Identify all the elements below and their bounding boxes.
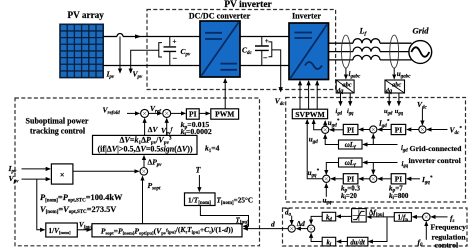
summerF3 [423, 213, 431, 221]
three-phase line c [329, 59, 354, 61]
wire d out to formula box [244, 228, 289, 230]
wire i_gd feed to omegaLf1 [363, 144, 397, 146]
wire PI1 to summer1 [330, 129, 343, 131]
svg-text:Inverter: Inverter [292, 12, 321, 21]
svg-text:Suboptimal power: Suboptimal power [26, 117, 89, 126]
inductor L_f phase a [353, 39, 380, 44]
wire multiplier to summer P [73, 170, 139, 172]
wire k_d out down to summerF2 [311, 216, 322, 223]
wire du/dt to k_i [337, 241, 347, 243]
svg-text:Grid: Grid [412, 26, 429, 36]
I_pv measurement drop [119, 37, 121, 73]
svg-text:tracking control: tracking control [30, 127, 86, 136]
svg-text:PI: PI [395, 175, 402, 184]
wire ugabc down [393, 68, 395, 79]
wire PI4 to summer5 [378, 178, 391, 180]
multiplier box [51, 164, 73, 184]
branch i_gd up to summer2 [372, 134, 374, 144]
SVPWM to inverter arrows [299, 81, 301, 109]
wire V_refold to sumA [127, 112, 139, 114]
svg-text:+: + [173, 38, 177, 46]
PI1 box [343, 124, 358, 134]
1/Tnom box [185, 193, 216, 206]
wire 1/Vnom to formula box [77, 229, 90, 231]
bracket at C_pv [159, 43, 162, 57]
svg-text:du/dt: du/dt [350, 239, 365, 246]
wire I_gq* to PI4 [407, 178, 420, 180]
PWM box [211, 109, 239, 119]
summer P (dP_pv) [140, 168, 148, 176]
wire d_a down into summerF1 [291, 216, 293, 225]
V_dc measurement drop [272, 50, 281, 92]
wire Vpv up to sumB [166, 119, 168, 136]
wire V_pv branch down to 1/Vnom [37, 179, 45, 230]
P_sopt formula box [92, 224, 242, 237]
summer3 [419, 126, 426, 133]
wire PI2 to summer2 [378, 129, 391, 131]
branch down to du/dt [369, 217, 387, 242]
wire f_s to summerF3 [431, 216, 447, 218]
wire sumA to sumB [149, 112, 162, 114]
inverter block [289, 23, 329, 80]
V_pv measurement drop [131, 50, 159, 73]
SVPWM box [292, 109, 327, 119]
summer B [163, 109, 171, 117]
summer5 [370, 175, 377, 182]
svg-text:×: × [60, 170, 65, 179]
svg-text:+: + [265, 37, 269, 45]
wire summerF3 to 1/fn [413, 216, 423, 218]
svg-text:d: d [271, 220, 275, 229]
svg-text:Frequency: Frequency [431, 222, 466, 231]
bracket at C_dc [269, 42, 272, 57]
wire: DC link top rail [240, 36, 289, 38]
DC/DC converter block [200, 21, 240, 77]
svg-text:ki=20: ki=20 [341, 192, 357, 201]
wire V_pv to multiplier [22, 178, 51, 180]
summer4 [323, 175, 330, 182]
summer1 [322, 126, 329, 133]
sensor ellipse 1 [342, 35, 351, 68]
inductor L_f phase c [353, 55, 380, 60]
dashed box: PV inverter [147, 10, 336, 90]
wire dPpv up into formula box [143, 156, 145, 167]
u_gq bottom stub into summer4 [325, 184, 327, 197]
wire dV up to sumA [144, 119, 146, 136]
three-phase line a [329, 42, 354, 44]
svg-text:Grid-connected: Grid-connected [410, 144, 463, 153]
PV array panel [60, 24, 103, 77]
k_i box [322, 237, 336, 247]
wire PI to PWM [199, 112, 209, 114]
wire summerF2 to summerF1 [297, 228, 308, 230]
wire omegaLf2 out to summer4 top [326, 163, 338, 175]
wire T_pu path into formula box [200, 206, 248, 227]
wire V_dc down to summer3 [421, 109, 423, 125]
wire V_dc* to summer3 [427, 129, 447, 131]
svg-text:PV array: PV array [68, 10, 105, 20]
wire summer2 to PI1 [359, 129, 370, 131]
summerF1 [288, 225, 295, 232]
wire omegaLf1 out to summer1 [325, 135, 338, 145]
wire 1/fn to dead zone with branch [367, 216, 394, 218]
svg-text:ki=800: ki=800 [389, 192, 409, 201]
inductor L_f phase b [353, 47, 380, 52]
svg-text:PI: PI [395, 125, 402, 134]
omega Lf box 2 [339, 158, 363, 169]
wire i_gq feed to omegaLf2 [363, 162, 397, 164]
current sensor bump [117, 34, 123, 37]
svg-text:−: − [263, 53, 268, 62]
wire igabc down [345, 68, 347, 79]
sensor ellipse 2 [390, 35, 399, 68]
summer2 [370, 126, 377, 133]
svg-text:abc: abc [342, 82, 351, 89]
dq1 outputs [340, 93, 342, 105]
dq2 outputs [388, 93, 390, 105]
svg-text:SVPWM: SVPWM [295, 110, 325, 119]
summerF2 [308, 225, 315, 232]
wire PI3 to summer4 [331, 178, 343, 180]
PI box (voltage loop) [186, 109, 199, 119]
svg-text:control: control [435, 240, 460, 249]
svg-text:PI: PI [189, 110, 197, 119]
wire P_sopt up to summer P [142, 176, 144, 223]
dashed box: Suboptimal power tracking control [15, 98, 260, 246]
svg-text:PI: PI [347, 175, 354, 184]
dead zone block [352, 209, 367, 222]
capacitor C_dc [242, 37, 269, 66]
wire f_0 up to summerF3 [425, 222, 427, 240]
svg-text:−: − [173, 54, 178, 63]
capacitor C_pv [164, 37, 192, 66]
PI3 box [343, 174, 358, 184]
wire T down to 1/Tnom [198, 175, 200, 191]
three-phase line b [329, 51, 354, 53]
svg-text:k1=4: k1=4 [205, 144, 220, 154]
dashed box: Frequency regulation control [283, 208, 468, 246]
branch i_gq down to summer5 [372, 163, 374, 175]
wire summer5 to PI3 [359, 178, 370, 180]
wire k_i out up to summerF2 [311, 234, 322, 242]
svg-text:Δd: Δd [297, 220, 305, 228]
wire: DC link bottom rail [240, 65, 289, 67]
PI2 box [391, 124, 406, 134]
abc/dq block 2 [385, 80, 405, 94]
wire PWM up to DC/DC [224, 79, 226, 109]
arrow on top rail [135, 34, 142, 38]
wire sumB to PI [171, 112, 186, 114]
svg-text:(if|ΔV|>0.5,ΔV=0.5sign(ΔV)): (if|ΔV|>0.5,ΔV=0.5sign(ΔV)) [97, 145, 192, 154]
svg-text:DC/DC converter: DC/DC converter [189, 12, 251, 21]
wire summer4 out to SVPWM [307, 120, 323, 179]
deltaV formula box [93, 135, 198, 154]
du/dt box [347, 237, 368, 246]
1/Vnom box [46, 223, 78, 237]
Grid source [409, 26, 432, 64]
summer A [141, 109, 149, 117]
svg-text:PI: PI [347, 125, 354, 134]
wire summer3 to PI2 [407, 129, 419, 131]
wire: PV bottom rail [103, 65, 200, 67]
summer1 top stub u_gd [324, 121, 326, 126]
wire I_pv to multiplier [22, 168, 51, 170]
svg-text:PWM: PWM [215, 110, 234, 119]
wire dead zone out to k_d [337, 215, 352, 217]
omega Lf box 1 [339, 140, 363, 151]
PI4 box [391, 174, 406, 184]
k_d box [322, 212, 336, 222]
svg-text:ΔV: ΔV [148, 125, 159, 134]
svg-text:PV inverter: PV inverter [224, 0, 272, 10]
wire: PV top rail [103, 36, 117, 38]
1/fn box [394, 213, 411, 223]
svg-text:abc: abc [392, 82, 401, 89]
svg-text:inverter control: inverter control [409, 156, 462, 165]
dashed box: Grid-connected inverter control [286, 98, 466, 203]
wire summer1 out to SVPWM [314, 120, 322, 130]
abc/dq block 1 [336, 80, 354, 94]
